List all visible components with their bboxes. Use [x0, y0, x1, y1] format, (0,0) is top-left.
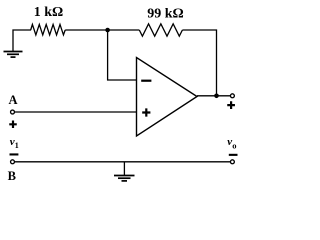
plus polarity under A: [9, 121, 17, 129]
terminal B circle: [11, 160, 15, 164]
ground (bottom, on rail): [123, 162, 125, 176]
node: junction dot at inverting feedback tap: [105, 28, 110, 33]
minus polarity under vo: [229, 154, 238, 156]
wire: node to inverting input: [108, 30, 137, 80]
node: output junction dot: [214, 94, 219, 99]
wire: terminal A to noninverting input: [15, 111, 137, 113]
minus symbol (inverting input): [141, 80, 151, 82]
svg-text:99 kΩ: 99 kΩ: [147, 7, 184, 22]
wire: op-amp output: [197, 95, 230, 97]
terminal: output circle (top right): [230, 94, 234, 98]
wire: R1 to R2 (through node): [65, 29, 139, 31]
resistor R2 99 kOhm: [139, 24, 182, 36]
svg-text:B: B: [8, 169, 16, 183]
op-amp U1: [137, 58, 198, 137]
plus symbol (noninverting input): [142, 108, 150, 116]
svg-text:1 kΩ: 1 kΩ: [34, 5, 64, 20]
plus polarity at output: [227, 101, 235, 109]
wire: bottom rail B to output terminal: [15, 161, 231, 163]
wire: ground stem to R1 left lead: [13, 30, 31, 52]
minus polarity under v1: [10, 153, 19, 155]
terminal: output circle (bottom right): [230, 160, 234, 164]
terminal A circle: [11, 110, 15, 114]
wire: R2 right lead to output corner: [182, 30, 216, 96]
svg-text:A: A: [8, 93, 17, 107]
resistor R1 1 kOhm: [31, 24, 65, 35]
ground (top-left): [4, 52, 23, 58]
